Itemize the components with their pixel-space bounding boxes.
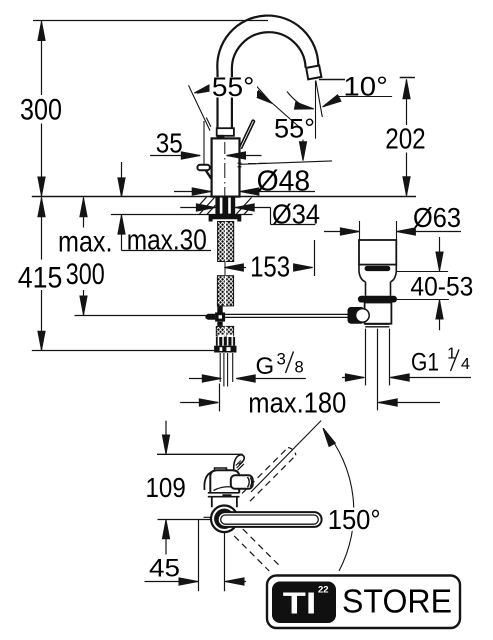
spout tube	[218, 71, 232, 129]
spout outer arc	[217, 16, 318, 71]
dim O63	[324, 231, 461, 233]
svg-text:300: 300	[20, 94, 62, 127]
svg-text:153: 153	[250, 252, 290, 284]
dim max180	[180, 384, 440, 412]
collar notch	[217, 135, 225, 139]
svg-text:G1: G1	[411, 348, 439, 376]
spout outlet circle	[211, 506, 238, 533]
spout inner arc	[232, 32, 306, 70]
G3/8 fraction slash	[286, 352, 294, 374]
cap top tab	[215, 468, 227, 470]
handle lever (side view, raised)	[239, 120, 255, 149]
knockout behind 150 label	[326, 508, 383, 532]
svg-text:10°: 10°	[343, 72, 388, 102]
vertical reference at outlet	[315, 81, 317, 139]
logo outer box	[267, 576, 460, 629]
svg-text:3: 3	[277, 351, 286, 369]
dim 300 arrows	[38, 22, 45, 41]
rod left cap	[205, 314, 215, 320]
dim O34 leader	[180, 208, 315, 225]
pull rod T-junction	[217, 306, 222, 313]
svg-text:4: 4	[461, 356, 470, 373]
handle pivot boss (front)	[234, 455, 245, 471]
boss hatch	[236, 461, 244, 471]
body centerline	[224, 142, 226, 196]
plug dark band	[365, 266, 391, 271]
55deg no2 down arrow	[302, 140, 304, 146]
O63 extension ticks	[360, 221, 397, 241]
150 arc	[323, 428, 354, 571]
55deg no2 target line	[240, 161, 332, 164]
bottom hose reference line	[32, 350, 214, 352]
max300 bottom reference	[75, 315, 208, 317]
svg-text:55°: 55°	[274, 113, 315, 143]
deck bottom line	[111, 214, 253, 216]
svg-text:55°: 55°	[212, 72, 255, 102]
faucet body	[212, 138, 240, 196]
svg-text:40-53: 40-53	[410, 272, 473, 302]
collar	[217, 128, 234, 136]
109 top reference line	[157, 453, 243, 455]
dim 415 line	[41, 197, 43, 350]
dim 300 line	[41, 21, 43, 196]
braid segment 3	[216, 326, 233, 336]
dim 45	[145, 520, 247, 592]
logo black square	[272, 582, 336, 624]
tilted 10deg stream line	[316, 81, 323, 118]
body bottom collar	[208, 493, 240, 497]
55deg no1 left arrow	[197, 91, 211, 93]
dim G1 1/4	[342, 377, 471, 379]
neck	[366, 282, 391, 296]
waste body	[365, 303, 392, 324]
svg-text:G: G	[256, 353, 275, 380]
svg-text:150°: 150°	[328, 504, 381, 535]
55deg no1 right arrow	[256, 85, 270, 101]
handle knob at deck (side view)	[197, 165, 209, 170]
dim 35	[150, 155, 262, 157]
svg-text:TI: TI	[283, 586, 317, 621]
braid segment 2	[217, 276, 233, 306]
mounting nut	[209, 214, 242, 221]
outlet tip marks	[238, 163, 267, 167]
seal collar ring	[358, 296, 397, 303]
threaded rod braid	[218, 222, 234, 262]
LOGO TI STORE	[267, 576, 460, 629]
G1 1/4 fraction slash	[451, 350, 460, 372]
hatch marks near collar	[206, 118, 211, 127]
svg-text:Ø63: Ø63	[413, 202, 461, 233]
hose end fittings	[218, 335, 224, 337]
handle front	[231, 475, 253, 489]
svg-text:109: 109	[146, 472, 186, 503]
dim 202 line	[406, 79, 408, 195]
dim O48	[174, 191, 315, 193]
top extension line	[33, 20, 268, 22]
svg-text:max.30: max.30	[127, 225, 207, 257]
svg-text:Ø48: Ø48	[257, 166, 311, 198]
svg-text:max.180: max.180	[248, 388, 346, 420]
svg-text:Ø34: Ø34	[272, 199, 320, 230]
body front cap	[210, 470, 239, 493]
text knockout backgrounds	[210, 77, 258, 98]
svg-text:max.: max.	[58, 226, 113, 259]
10deg leader	[325, 97, 392, 106]
dashed lever down position	[243, 529, 281, 567]
55deg no1 left ref line	[189, 85, 211, 130]
svg-text:22: 22	[318, 585, 329, 596]
rod housing knob	[348, 307, 365, 324]
109 bottom reference line	[158, 517, 212, 519]
dim max30 line + underline	[122, 162, 212, 251]
dashed lever up position	[242, 447, 288, 493]
dim G3/8	[189, 378, 306, 380]
dim max300 line	[83, 197, 85, 315]
shank dark block	[215, 197, 235, 215]
svg-text:415: 415	[18, 262, 63, 295]
10deg ref line from aerator	[319, 78, 415, 80]
horizontal pop-up rod	[225, 314, 349, 317]
deck hatch right	[237, 198, 253, 215]
svg-text:202: 202	[385, 124, 426, 156]
svg-text:300: 300	[66, 258, 105, 291]
55deg no2 arc	[287, 92, 307, 108]
body bottom lines	[365, 324, 389, 327]
svg-text:35: 35	[156, 128, 183, 159]
deck hatch left	[198, 197, 216, 214]
body front: spout curve behind	[204, 470, 216, 490]
neck	[212, 497, 237, 508]
svg-text:8: 8	[295, 359, 304, 377]
knob circle	[356, 309, 370, 323]
dim 35 extension line	[203, 121, 205, 164]
dim 153	[224, 240, 314, 276]
inner curve	[214, 487, 240, 491]
deck line	[32, 196, 416, 198]
drain flange cylinder	[359, 240, 396, 265]
shoulder taper	[359, 265, 396, 282]
dim 40-53	[439, 237, 441, 330]
tailpipe	[366, 329, 390, 411]
svg-text:45: 45	[149, 554, 180, 582]
40-53 reference lines	[397, 272, 449, 300]
lever bar	[218, 512, 322, 527]
thin 150 reference line	[251, 421, 321, 492]
svg-text:STORE: STORE	[342, 584, 452, 621]
aerator	[306, 66, 321, 80]
aerator ring	[216, 510, 233, 527]
55deg no1 right ref line	[273, 104, 299, 127]
handle knob diagonal	[206, 170, 212, 179]
dim 109	[165, 421, 167, 555]
centerline in braid gap	[224, 262, 226, 277]
hose tails	[220, 353, 233, 387]
